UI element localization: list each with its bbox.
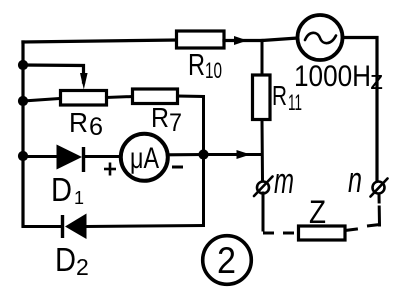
wire corner up to terminal n	[378, 194, 382, 225]
wire dashed bottom left to Z	[263, 232, 298, 235]
wire R10 to node A with arrow	[224, 36, 262, 45]
wire left bus to R6	[23, 99, 60, 102]
junction dot mid left	[18, 96, 28, 106]
terminal m (jack symbol)	[254, 177, 273, 197]
svg-text:2: 2	[217, 240, 236, 281]
wire D1 to meter	[84, 155, 122, 158]
svg-text:7: 7	[169, 109, 182, 137]
label n	[348, 159, 362, 200]
label D1	[51, 171, 84, 208]
terminal n (jack symbol)	[371, 179, 388, 197]
svg-text:n: n	[348, 159, 362, 200]
ammeter uA	[121, 134, 168, 181]
svg-text:R: R	[69, 107, 88, 138]
svg-text:2: 2	[76, 254, 89, 280]
label + polarity	[104, 163, 116, 176]
resistor R10	[177, 31, 225, 48]
svg-text:μA: μA	[130, 142, 159, 175]
svg-text:10: 10	[205, 58, 222, 83]
potentiometer R6	[61, 91, 107, 106]
wire left vertical bus	[21, 42, 24, 226]
value label 1000Hz	[294, 60, 384, 95]
wire terminal m down to dashed corner	[262, 193, 265, 230]
wire top horizontal to R10	[23, 40, 176, 42]
svg-text:1000H: 1000H	[294, 60, 371, 93]
resistor R7	[133, 89, 178, 104]
wire meter to junction	[168, 153, 204, 156]
wire node A to AC source	[262, 38, 298, 41]
svg-text:m: m	[274, 160, 294, 201]
figure number 2 (circled)	[203, 236, 252, 285]
svg-text:D: D	[55, 241, 76, 278]
AC source 1000Hz	[298, 15, 343, 60]
resistor R11	[253, 75, 271, 120]
svg-text:R: R	[151, 102, 169, 133]
diode D2	[63, 214, 87, 240]
label Z	[309, 194, 326, 230]
wire left bus to D1	[23, 155, 58, 158]
label R7	[151, 102, 182, 137]
wire R11 down to terminal m	[261, 120, 265, 181]
wire R7 to right branch corner and down	[178, 96, 204, 226]
label - polarity	[172, 166, 183, 169]
label m	[274, 160, 294, 201]
svg-text:1: 1	[74, 188, 84, 208]
svg-text:D: D	[51, 171, 72, 208]
wire AC source to right vertical	[343, 38, 378, 182]
junction dot top left	[18, 60, 28, 70]
label R10	[188, 47, 222, 83]
wire left bus bottom corner to D2	[23, 225, 61, 228]
svg-text:R: R	[272, 80, 287, 111]
svg-text:6: 6	[89, 113, 103, 141]
label R6	[69, 107, 103, 141]
junction dot meter row right	[198, 149, 208, 159]
diode D1	[57, 145, 84, 173]
junction dot meter row left	[18, 151, 28, 161]
wire wiper branch to R6	[23, 65, 88, 90]
wire D2 to right branch	[87, 226, 204, 227]
impedance Z	[299, 226, 346, 240]
svg-text:Z: Z	[309, 194, 326, 230]
svg-text:R: R	[188, 47, 205, 82]
wire dashed bottom right from Z to corner	[345, 225, 380, 231]
label R11	[272, 80, 302, 115]
wire node A down to R11	[261, 41, 264, 77]
wire junction to m branch with arrow	[204, 150, 263, 159]
label D2	[55, 241, 89, 280]
svg-text:11: 11	[288, 90, 302, 115]
wire R6 to R7	[107, 97, 133, 98]
